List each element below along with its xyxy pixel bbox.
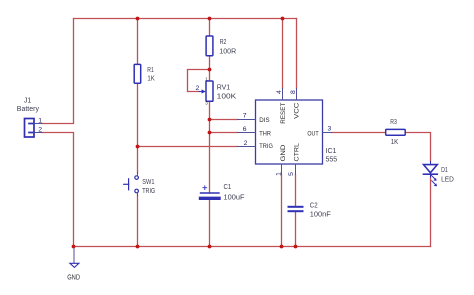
junction ground rail GND pin xyxy=(280,245,284,249)
wire VCC top rail xyxy=(74,18,297,20)
junction DIS xyxy=(208,118,212,122)
ground symbol xyxy=(70,248,79,267)
svg-text:TRIG: TRIG xyxy=(259,143,273,150)
svg-text:GND: GND xyxy=(280,145,287,162)
connector J1 pin 1 stub xyxy=(34,123,42,125)
svg-text:CTRL: CTRL xyxy=(294,143,301,162)
wire C1 bottom to ground rail xyxy=(209,200,211,247)
svg-text:J1: J1 xyxy=(24,97,32,104)
IC1 pin 1 GND stub xyxy=(281,164,283,175)
timer IC1 555 body xyxy=(256,100,323,164)
wire DIS node to THR node xyxy=(209,120,211,133)
wire R3 to D1 top xyxy=(405,133,430,162)
capacitor C2 xyxy=(289,207,303,211)
svg-text:R1: R1 xyxy=(147,67,154,74)
junction TRIG R1 SW1 xyxy=(136,145,140,149)
wire D1 bottom to ground rail xyxy=(430,177,432,247)
wire R1 bottom to TRIG node xyxy=(137,83,139,147)
wire THR node to C1 top xyxy=(209,133,211,194)
wire GND bottom rail xyxy=(74,246,431,248)
wire THR horizontal xyxy=(210,132,238,134)
svg-text:R2: R2 xyxy=(220,39,227,46)
junction ground rail C1 xyxy=(208,245,212,249)
svg-text:C1: C1 xyxy=(224,184,232,191)
svg-text:1K: 1K xyxy=(391,139,399,146)
IC1 pin 7 DIS stub xyxy=(238,119,256,121)
wire J1 pin1 to top rail xyxy=(42,19,74,124)
wire OUT to R3 xyxy=(332,132,386,134)
wire R2 bottom to RV1 node xyxy=(209,56,211,70)
junction ground rail SW1 xyxy=(136,245,140,249)
svg-text:OUT: OUT xyxy=(307,130,318,137)
svg-text:1K: 1K xyxy=(147,76,155,83)
wire CTRL pin 5 to C2 top xyxy=(295,175,297,207)
svg-text:TRIG: TRIG xyxy=(142,188,155,195)
potentiometer RV1 xyxy=(206,81,213,101)
junction top rail R2 xyxy=(208,17,212,21)
svg-text:4: 4 xyxy=(276,90,283,94)
svg-text:Battery: Battery xyxy=(17,106,40,113)
IC1 pin 8 VCC stub xyxy=(296,89,298,101)
IC1 pin 2 TRIG stub xyxy=(238,146,256,148)
svg-text:3: 3 xyxy=(328,125,332,132)
svg-text:100R: 100R xyxy=(219,48,236,55)
svg-text:555: 555 xyxy=(326,156,338,163)
svg-text:C2: C2 xyxy=(310,203,318,210)
RV1 wiper arrow pin 2 xyxy=(199,89,206,93)
svg-text:2: 2 xyxy=(244,140,248,147)
SW1 top pin stub xyxy=(137,172,139,176)
C1 plus sign xyxy=(203,186,207,190)
junction ground rail GND symbol xyxy=(72,245,76,249)
wire top rail to R1 top xyxy=(137,19,139,65)
resistor R1 xyxy=(134,64,141,83)
wire RV1 top pin xyxy=(209,70,211,82)
wire RESET pin 4 to top rail xyxy=(282,19,284,89)
svg-text:7: 7 xyxy=(243,113,247,120)
svg-text:1: 1 xyxy=(38,118,42,125)
wire DIS horizontal xyxy=(210,119,238,121)
IC1 pin 3 OUT stub xyxy=(323,132,332,134)
switch SW1 xyxy=(124,176,139,193)
svg-text:SW1: SW1 xyxy=(142,179,154,186)
wire RV1 bottom to DIS node xyxy=(209,101,211,119)
svg-text:R3: R3 xyxy=(390,119,397,126)
wire GND pin 1 to ground rail xyxy=(281,175,283,247)
svg-text:VCC: VCC xyxy=(294,103,301,119)
junction top rail RESET xyxy=(281,17,285,21)
wire top rail to R2 top xyxy=(209,19,211,37)
wire VCC pin 8 to top rail xyxy=(296,19,298,89)
svg-text:6: 6 xyxy=(243,126,247,133)
svg-text:100nF: 100nF xyxy=(310,212,331,219)
junction THR xyxy=(208,131,212,135)
svg-text:2: 2 xyxy=(196,85,200,92)
svg-text:D1: D1 xyxy=(441,167,448,174)
svg-text:IC1: IC1 xyxy=(326,148,337,155)
LED D1 xyxy=(424,162,438,178)
svg-text:RESET: RESET xyxy=(280,103,287,124)
connector J1 xyxy=(25,119,35,138)
IC1 pin 6 THR stub xyxy=(238,132,256,134)
svg-text:LED: LED xyxy=(441,177,454,184)
junction R2 RV1 wiper xyxy=(208,68,212,72)
svg-text:RV1: RV1 xyxy=(217,85,231,92)
resistor R3 xyxy=(386,129,406,135)
wire RV1 wiper loop xyxy=(188,70,210,92)
junction ground rail C2 xyxy=(294,245,298,249)
svg-text:1: 1 xyxy=(276,172,283,176)
connector J1 pin 2 stub xyxy=(34,132,42,134)
wire TRIG horizontal xyxy=(138,146,238,148)
IC1 pin 5 CTRL stub xyxy=(295,164,297,175)
SW1 bottom pin stub xyxy=(137,193,139,196)
svg-text:DIS: DIS xyxy=(259,117,270,124)
svg-text:2: 2 xyxy=(38,127,42,134)
capacitor C1 polarized xyxy=(201,193,220,198)
D1 emission arrows xyxy=(431,175,437,186)
wire TRIG node to SW1 top xyxy=(137,147,139,174)
svg-text:5: 5 xyxy=(288,172,295,176)
junction top rail R1 xyxy=(136,17,140,21)
wire SW1 bottom to ground rail xyxy=(137,195,139,247)
svg-text:100K: 100K xyxy=(217,94,237,101)
resistor R2 xyxy=(206,36,213,56)
svg-text:100uF: 100uF xyxy=(224,195,245,202)
wire C2 bottom to ground rail xyxy=(295,211,297,247)
wire J1 pin2 down to ground rail xyxy=(42,133,74,247)
svg-text:GND: GND xyxy=(67,274,80,281)
svg-text:THR: THR xyxy=(259,130,271,137)
svg-text:8: 8 xyxy=(290,90,297,94)
IC1 pin 4 RESET stub xyxy=(282,89,284,101)
